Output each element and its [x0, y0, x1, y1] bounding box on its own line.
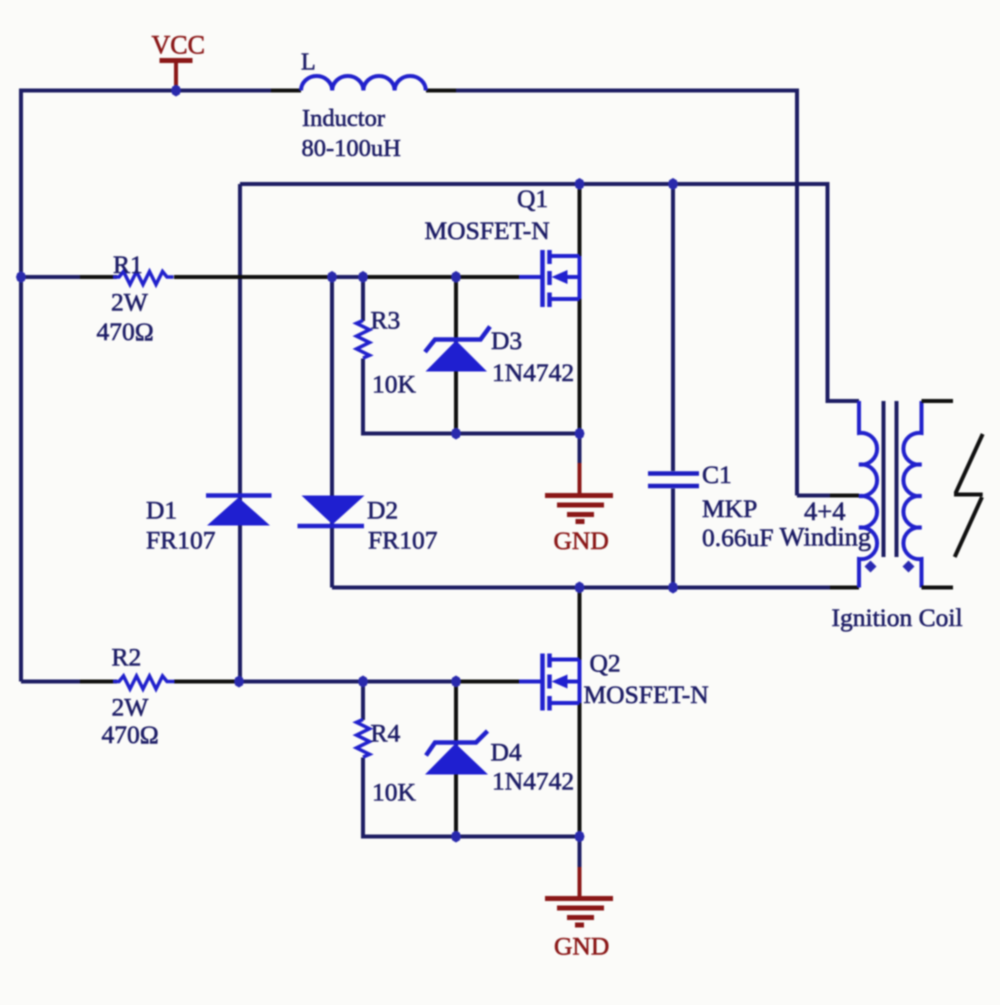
svg-text:2W: 2W [112, 693, 150, 722]
svg-text:MOSFET-N: MOSFET-N [584, 680, 709, 709]
svg-text:VCC: VCC [152, 31, 205, 60]
svg-text:GND: GND [554, 526, 609, 555]
svg-text:D1: D1 [146, 496, 177, 525]
svg-text:1N4742: 1N4742 [492, 767, 574, 796]
svg-text:Inductor: Inductor [302, 105, 385, 132]
svg-text:FR107: FR107 [146, 526, 216, 555]
svg-text:Ignition Coil: Ignition Coil [832, 603, 963, 632]
svg-text:1N4742: 1N4742 [492, 358, 574, 387]
svg-text:R2: R2 [112, 643, 142, 672]
svg-text:10K: 10K [372, 778, 417, 807]
svg-text:80-100uH: 80-100uH [302, 135, 401, 162]
svg-text:FR107: FR107 [368, 526, 438, 555]
svg-text:R3: R3 [371, 306, 401, 335]
svg-text:R1: R1 [113, 250, 143, 279]
svg-text:D3: D3 [491, 326, 522, 355]
svg-text:L: L [301, 50, 316, 76]
svg-text:C1: C1 [702, 460, 732, 489]
svg-text:0.66uF: 0.66uF [702, 523, 774, 552]
svg-text:D2: D2 [367, 496, 398, 525]
svg-text:470Ω: 470Ω [97, 317, 154, 346]
svg-text:2W: 2W [111, 288, 149, 317]
svg-text:470Ω: 470Ω [102, 720, 159, 749]
svg-text:D4: D4 [491, 738, 522, 767]
svg-text:Q2: Q2 [590, 649, 621, 678]
svg-text:10K: 10K [372, 370, 417, 399]
svg-text:R4: R4 [371, 719, 401, 748]
svg-text:GND: GND [554, 932, 609, 961]
svg-text:Winding: Winding [780, 522, 872, 552]
svg-text:MOSFET-N: MOSFET-N [425, 216, 550, 245]
svg-text:Q1: Q1 [517, 184, 548, 213]
svg-text:MKP: MKP [702, 494, 757, 523]
